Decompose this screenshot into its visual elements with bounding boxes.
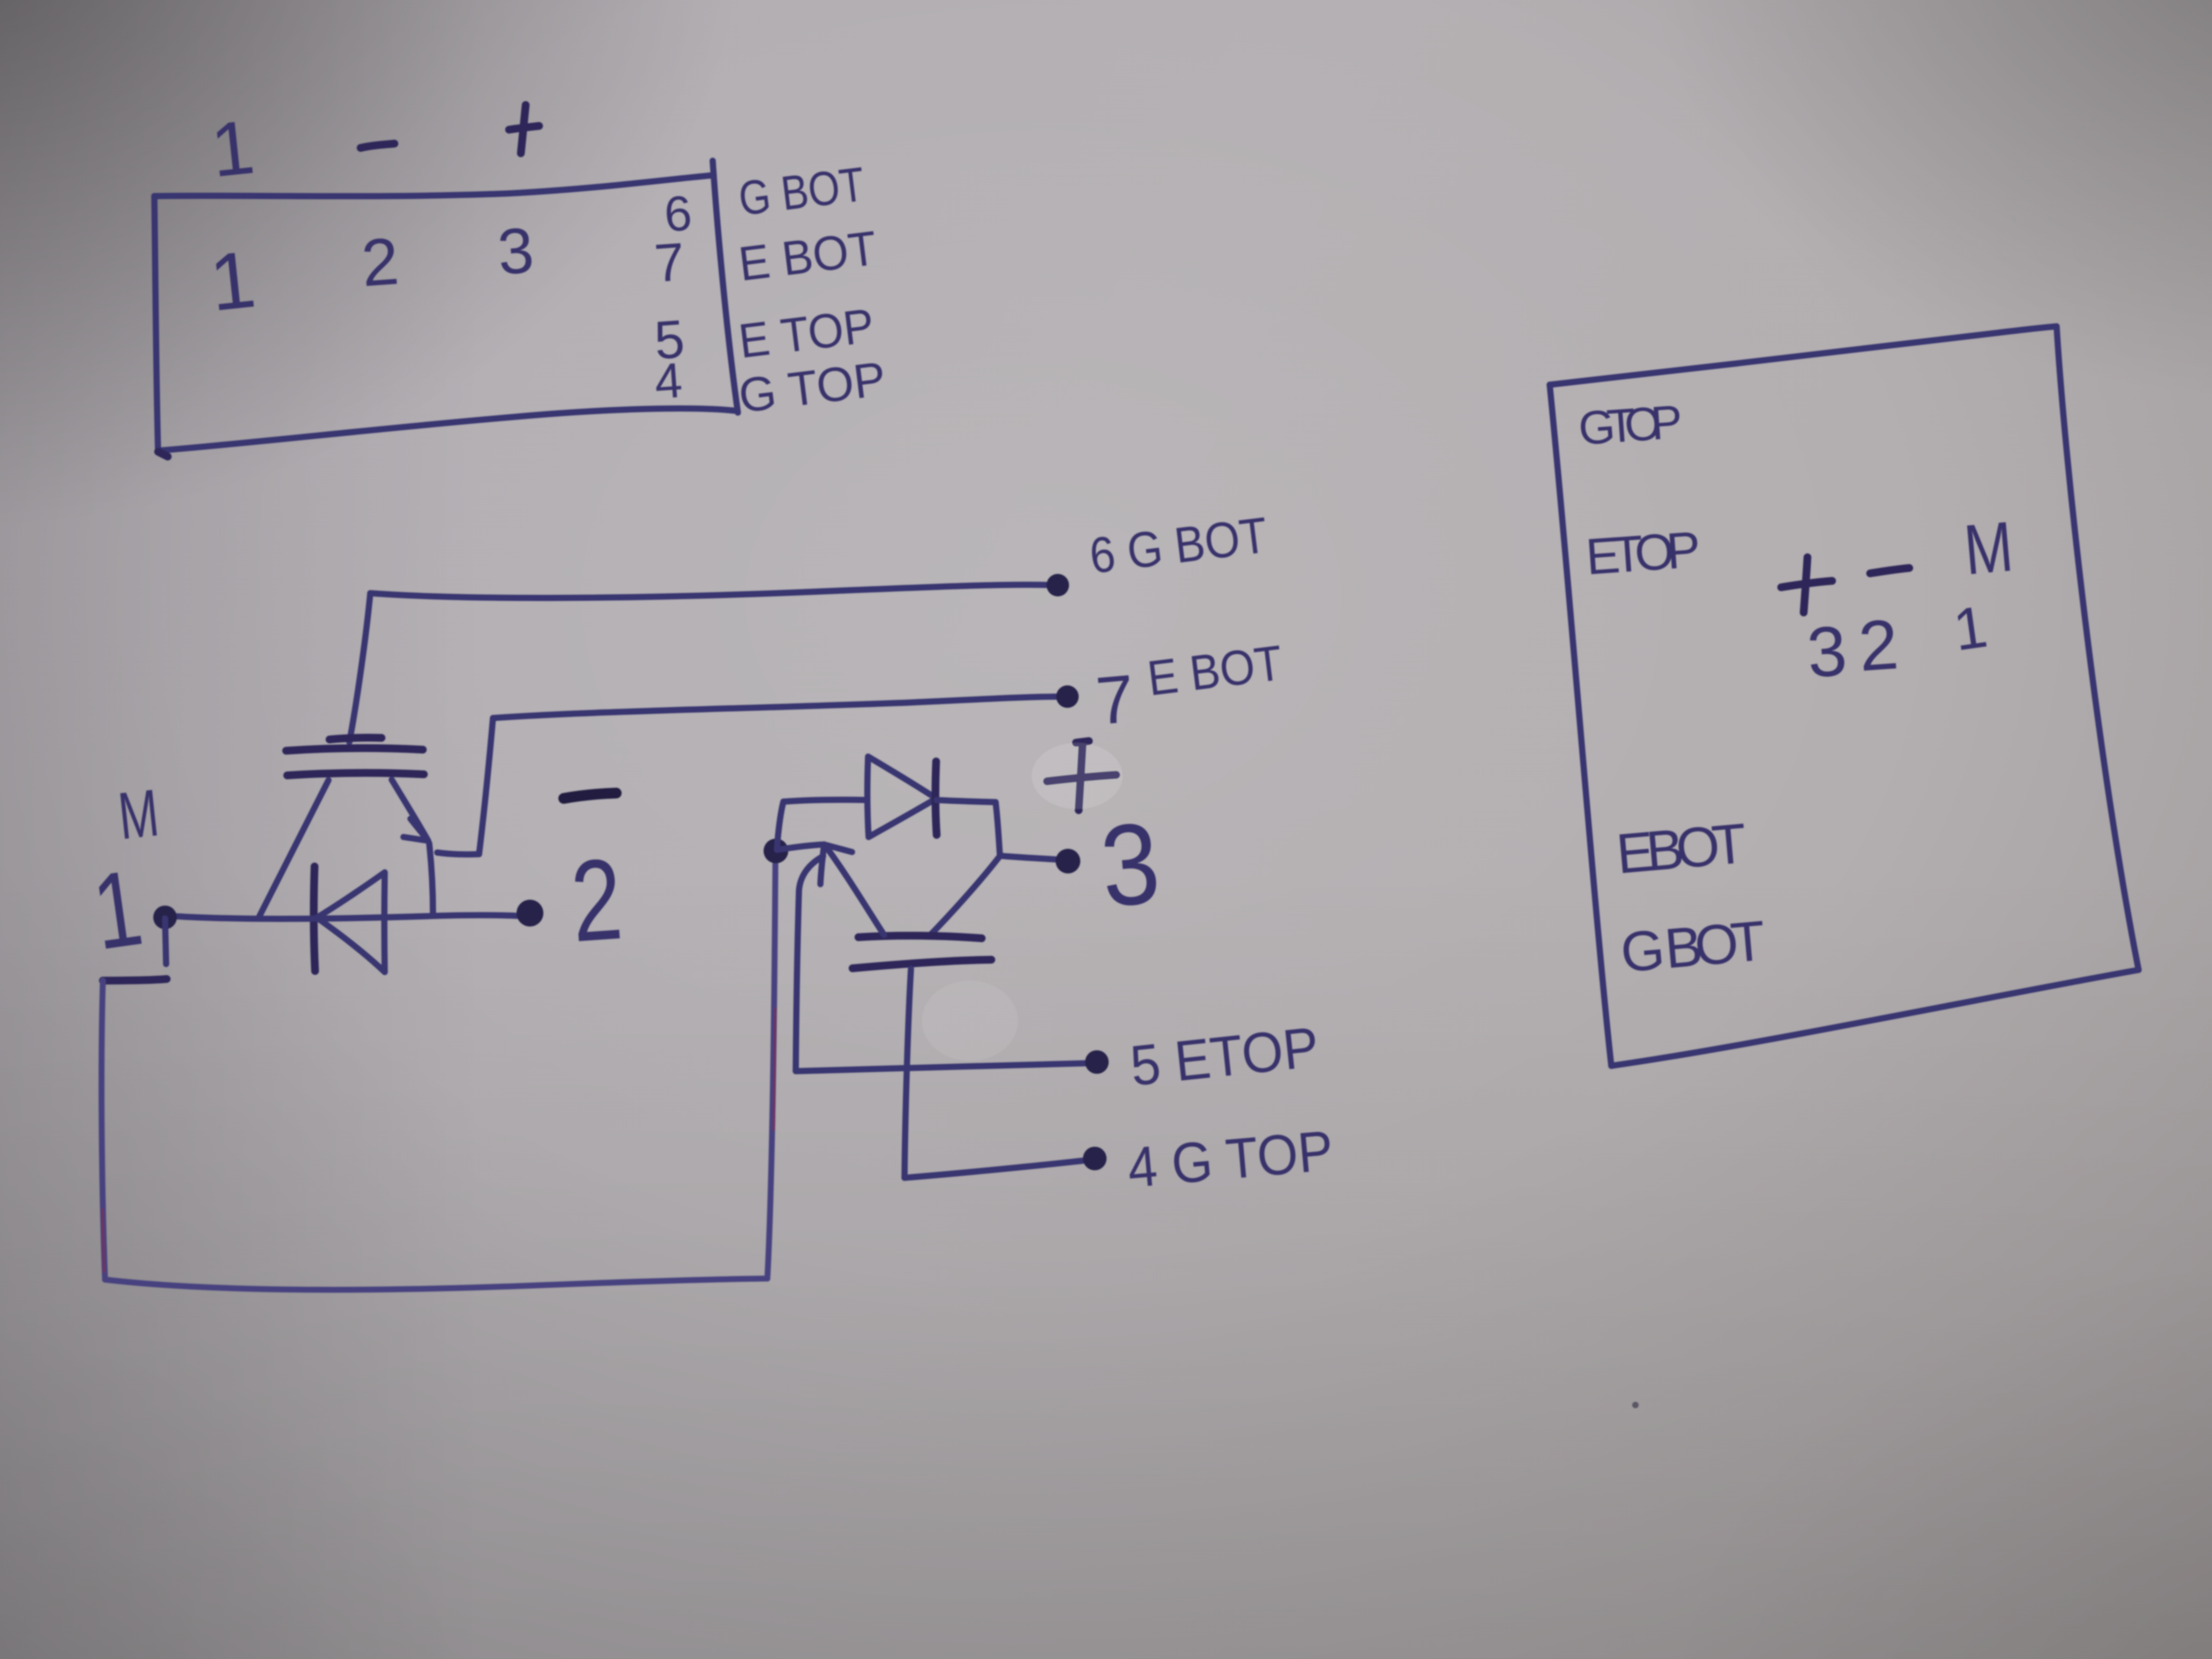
J2 pin label E TOP: [1584, 521, 1703, 586]
J2 pin number 1: [1949, 593, 1991, 663]
connector block J2 outline (right): [1550, 326, 2139, 1066]
svg-text:G TOP: G TOP: [1576, 395, 1685, 455]
wire: to terminal 5 E TOP: [796, 1063, 1091, 1071]
node 1 dot: [153, 906, 177, 929]
wire: node 1 down-step to left rail: [103, 918, 167, 981]
J2 pin number 3: [1805, 611, 1849, 692]
svg-text:2: 2: [359, 224, 401, 300]
wire: to terminal 4 G TOP: [905, 1160, 1088, 1178]
svg-text:4 G TOP: 4 G TOP: [1125, 1119, 1336, 1200]
J2 pin label G BOT: [1618, 909, 1770, 984]
svg-text:3: 3: [1805, 611, 1849, 692]
J1 pin number 2: [359, 224, 401, 300]
wire: Q2 gate lead down: [905, 969, 911, 1178]
svg-text:G BOT: G BOT: [1618, 909, 1770, 984]
label 3: [1096, 798, 1164, 931]
wire: Q1 gate lead vertical: [349, 593, 370, 742]
diode D2 cathode bar: [936, 761, 937, 835]
wire: overdraw tint on left rail: [102, 1208, 104, 1273]
label plus (above node 3): [1047, 741, 1116, 810]
label 4 G TOP: [1125, 1119, 1336, 1200]
terminal dot 3: [1056, 849, 1080, 873]
wire: node A up to diode D2 anode: [777, 799, 867, 849]
wire: Q2 emitter sense riser: [796, 856, 823, 1071]
paper stain near plus: [1032, 743, 1123, 809]
J1 pin number 1: [206, 234, 260, 328]
Q1 gate tick: [330, 738, 382, 739]
J1 pin label E TOP: [736, 299, 877, 369]
J2 pin number 2: [1856, 604, 1901, 686]
svg-text:4: 4: [653, 353, 684, 409]
wire: overdraw tint on right rail: [774, 1007, 775, 1131]
J2 label M: [1961, 506, 2016, 589]
svg-text:3: 3: [1096, 798, 1164, 931]
svg-text:7: 7: [1093, 660, 1137, 739]
J1 top label: pin 1: [207, 104, 258, 193]
J2 label minus: [1870, 568, 1909, 573]
diode D1 triangle: [317, 872, 385, 972]
label minus (above node 2): [564, 793, 616, 798]
diode D1 cathode bar: [314, 866, 315, 971]
J2 pin label G TOP: [1576, 395, 1685, 455]
svg-text:1: 1: [206, 234, 260, 328]
node 2 dot: [517, 900, 543, 926]
IGBT Q1 channel plate: [287, 773, 424, 775]
IGBT Q2 collector diagonal: [930, 857, 999, 935]
svg-text:1: 1: [1949, 593, 1991, 663]
svg-text:2: 2: [567, 834, 626, 966]
label 1 (left node): [86, 848, 149, 973]
IGBT Q1 emitter diagonal with arrow: [392, 780, 433, 914]
IGBT Q2 channel plate: [858, 936, 982, 938]
wire: D2 cathode to node 3: [937, 800, 1057, 860]
terminal dot 6: [1047, 574, 1069, 596]
label 6 G BOT: [1087, 506, 1271, 584]
svg-text:7: 7: [653, 231, 686, 294]
IGBT Q2 gate plate: [853, 960, 991, 968]
svg-text:M: M: [115, 775, 162, 853]
svg-text:5 ETOP: 5 ETOP: [1127, 1015, 1321, 1098]
J1 pin number 7: [653, 231, 686, 294]
svg-text:6 G BOT: 6 G BOT: [1087, 506, 1271, 584]
J2 pin label E BOT: [1614, 812, 1750, 886]
terminal dot 7: [1056, 685, 1079, 708]
svg-text:1: 1: [86, 848, 149, 973]
paper stain near Q2: [922, 981, 1018, 1061]
svg-text:E BOT: E BOT: [736, 221, 879, 292]
diode D2 triangle: [868, 757, 935, 837]
label M (left): [115, 775, 162, 853]
label 2 (right of node 2): [567, 834, 626, 966]
paper speck bottom right: [1632, 1402, 1639, 1408]
svg-text:3: 3: [495, 214, 536, 288]
J1 pin label E BOT: [736, 221, 879, 292]
label 7 E BOT: [1093, 636, 1285, 739]
J1 pin label G TOP: [736, 352, 888, 423]
svg-text:1: 1: [207, 104, 258, 193]
svg-text:M: M: [1961, 506, 2016, 589]
J1 pin number 3: [495, 214, 536, 288]
J1 pin number 4: [653, 353, 684, 409]
svg-text:G BOT: G BOT: [736, 158, 867, 226]
wire: bottom rail: [105, 1279, 767, 1290]
J1 pin number 6: [662, 186, 693, 242]
terminal dot 4: [1083, 1147, 1107, 1170]
wire: Q1 emitter to terminal 7 E BOT: [437, 697, 1063, 855]
svg-text:EBOT: EBOT: [1614, 812, 1750, 886]
label 5 E TOP: [1127, 1015, 1321, 1098]
J1 pin number 5: [653, 309, 686, 371]
wire: Q1 gate to terminal 6 G BOT: [370, 585, 1051, 598]
node A dot: [764, 839, 788, 863]
wire: node 1 to node 2 (M rail): [176, 915, 527, 919]
J1 top label: minus: [361, 144, 394, 148]
svg-text:ETOP: ETOP: [1584, 521, 1703, 586]
IGBT Q1 collector diagonal: [258, 780, 328, 918]
IGBT Q2 emitter diagonal with arrow (to node A): [777, 845, 884, 935]
connector block J1 outline (top-left): [154, 161, 738, 457]
J1 pin label G BOT: [736, 158, 867, 226]
wire: left rail vertical: [101, 981, 105, 1280]
J1 top label: plus: [509, 105, 539, 153]
svg-text:2: 2: [1856, 604, 1901, 686]
wire: right rail vertical up to node A: [767, 864, 775, 1279]
IGBT Q1 gate plate: [286, 748, 423, 751]
svg-text:E BOT: E BOT: [1145, 636, 1286, 706]
terminal dot 5: [1085, 1050, 1109, 1074]
J2 label plus: [1781, 557, 1832, 612]
